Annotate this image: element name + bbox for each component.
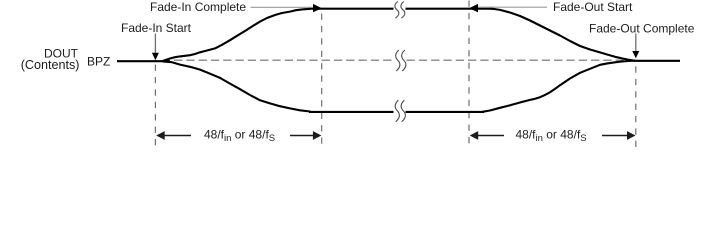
break mark middle bbox=[396, 50, 406, 71]
dashed vertical: fade-out complete bbox=[635, 66, 637, 147]
leader arrow down: fade-in start bbox=[152, 34, 159, 61]
wire: lower envelope rise bbox=[483, 61, 635, 112]
wire: right output line bbox=[634, 60, 680, 62]
dashed vertical: fade-in complete bbox=[321, 14, 323, 148]
svg-text:(Contents): (Contents) bbox=[21, 58, 80, 72]
svg-text:Fade-In Start: Fade-In Start bbox=[121, 21, 192, 35]
wire: upper envelope rise bbox=[163, 9, 310, 61]
wire: top flat line right of break bbox=[406, 8, 493, 10]
wire: bottom flat line right of break bbox=[406, 111, 485, 113]
dashed vertical: fade-in start bbox=[154, 65, 156, 147]
dimension arrow left span bbox=[156, 131, 321, 140]
dashed vertical: fade-out start bbox=[468, 1, 470, 148]
wire: lower envelope fall bbox=[163, 61, 310, 111]
break mark bottom bbox=[395, 100, 405, 122]
svg-text:BPZ: BPZ bbox=[87, 54, 110, 68]
wire: left input line bbox=[117, 60, 170, 62]
wire: upper envelope fall bbox=[491, 9, 635, 61]
svg-text:Fade-Out Complete: Fade-Out Complete bbox=[589, 21, 695, 35]
dashed horizontal center line bbox=[174, 59, 629, 61]
break mark top bbox=[395, 2, 405, 19]
svg-text:Fade-In Complete: Fade-In Complete bbox=[150, 0, 246, 14]
wire: bottom flat line left of break bbox=[309, 111, 394, 113]
leader arrow down: fade-out complete bbox=[632, 34, 639, 59]
wire: top flat line left of break bbox=[308, 8, 394, 10]
leader arrow left: fade-out start bbox=[469, 4, 547, 12]
svg-text:Fade-Out Start: Fade-Out Start bbox=[553, 0, 633, 14]
dimension arrow right span bbox=[470, 131, 636, 140]
leader arrow right: fade-in complete bbox=[251, 4, 322, 12]
